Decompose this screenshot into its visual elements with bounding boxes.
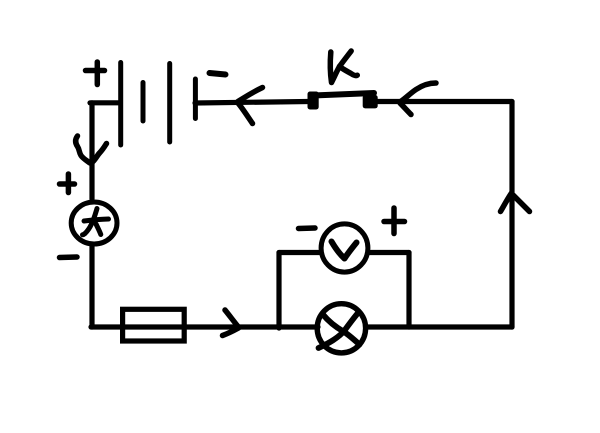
wire bottom from left corner through resistor to voltmeter branch: [91, 324, 318, 329]
voltmeter V1 symbol V: [332, 242, 357, 259]
switch K left terminal: [308, 92, 319, 110]
wire voltmeter branch left horizontal: [279, 250, 320, 255]
lamp L1 cross stroke 1: [323, 314, 360, 345]
lamp L1 cross stroke 2: [319, 314, 358, 349]
lamp L1 circle: [317, 304, 365, 353]
battery B1 plate 1 long positive: [118, 63, 123, 146]
arrow left on wire between battery and switch: [238, 88, 263, 124]
wire from switch to top-right corner: [377, 99, 512, 104]
ammeter A1 symbol: [83, 209, 109, 235]
wire bottom from lamp to right corner: [366, 324, 512, 329]
plus label at voltmeter: [384, 208, 405, 234]
switch K lever bar: [313, 93, 374, 96]
arrow right on bottom wire: [223, 310, 239, 336]
switch K label: [330, 51, 357, 83]
arrow up on right vertical wire: [501, 193, 530, 212]
arrow down on left vertical wire: [76, 136, 107, 163]
resistor R1 body: [123, 309, 185, 341]
switch K right terminal: [363, 95, 378, 108]
battery B1 plate 3 long positive: [167, 64, 172, 143]
wire from battery negative to switch: [195, 102, 308, 104]
minus label at ammeter: [60, 254, 78, 260]
voltmeter V1 circle: [321, 224, 368, 272]
plus label at ammeter: [60, 174, 75, 193]
battery B1 plate 2 short negative: [141, 83, 146, 122]
wire top-left from battery positive plate to left corner: [90, 100, 119, 105]
minus label at voltmeter: [299, 225, 316, 231]
wire voltmeter branch left vertical: [276, 253, 281, 329]
battery B1 plate 4 short negative: [193, 79, 198, 119]
plus label at battery positive: [86, 62, 105, 85]
arrow left on wire right of switch: [400, 83, 436, 115]
minus label at battery negative: [210, 73, 226, 75]
wire left vertical from ammeter to bottom corner: [89, 245, 94, 327]
wire voltmeter branch right horizontal: [368, 250, 409, 255]
wire right vertical: [509, 102, 514, 328]
ammeter A1 circle: [71, 202, 117, 244]
wire voltmeter branch right vertical: [406, 253, 411, 328]
wire left vertical from top corner to ammeter: [89, 103, 94, 199]
